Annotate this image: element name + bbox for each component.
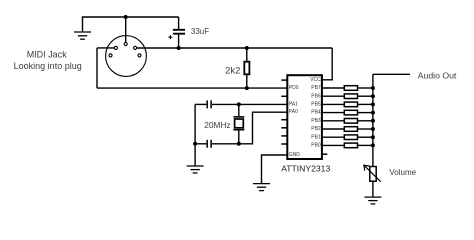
svg-text:2k2: 2k2	[225, 65, 240, 76]
connector pin 1 (lower left)	[109, 54, 112, 57]
node: bus junction PB2	[371, 127, 375, 131]
pin stub: pin 8 (PD4, n/c)	[281, 135, 287, 137]
svg-text:PA0: PA0	[289, 109, 298, 115]
node: bus junction PB4	[371, 111, 375, 115]
pin stub: pin 9 (PD5, n/c)	[281, 143, 287, 145]
IC U1 ATTINY2313 body	[287, 75, 322, 159]
ground GND3 below IC	[253, 184, 270, 191]
resistor R3 (PB6 row)	[322, 94, 373, 99]
pin label PB1	[311, 134, 321, 140]
connector pin 4 (upper left)	[114, 46, 117, 49]
crystal X1	[233, 104, 244, 143]
pin label PD0	[289, 85, 299, 91]
svg-text:Looking into plug: Looking into plug	[14, 61, 82, 71]
node: junction J3 2k2 top	[245, 46, 249, 50]
node: junction J2 cap bottom on VCC rail	[177, 46, 181, 50]
resistor R5 (PB4 row)	[322, 110, 373, 115]
resistor R2 (PB7 row)	[322, 86, 373, 91]
node: junction J4 2k2 bottom	[245, 86, 249, 90]
svg-text:PD0: PD0	[289, 85, 299, 91]
wire: left vertical from pin4	[96, 48, 98, 88]
wire: left vertical joining C2 and C3	[194, 104, 196, 143]
resistor R8 (PB1 row)	[322, 135, 373, 140]
node: bus junction PB7	[371, 86, 375, 90]
pin stub: pin 6 (PD2, n/c)	[281, 119, 287, 121]
wire: crystal bottom to PA0 pin	[239, 112, 287, 144]
wire: audio out tap	[373, 73, 410, 75]
pin label PB6	[311, 93, 321, 99]
svg-text:ATTINY2313: ATTINY2313	[281, 163, 330, 173]
svg-text:PB6: PB6	[311, 93, 321, 99]
pin label PA0	[289, 109, 298, 115]
pin stub: pin 11 (PD6, n/c)	[322, 153, 327, 155]
svg-text:PB1: PB1	[311, 134, 321, 140]
wire: MIDI pin4 left segment	[97, 47, 114, 49]
node: bus junction PB5	[371, 102, 375, 106]
wire: MIDI pin5 to VCC rail	[137, 47, 333, 49]
resistor R4 (PB5 row)	[322, 102, 373, 107]
capacitor C1 33uF electrolytic	[168, 17, 185, 48]
svg-text:Audio Out: Audio Out	[418, 70, 457, 80]
pin label PB5	[311, 102, 321, 108]
pin label PB7	[311, 85, 321, 91]
svg-text:PB7: PB7	[311, 85, 321, 91]
connector pin 5 (upper right)	[134, 46, 137, 49]
svg-text:PB5: PB5	[311, 102, 321, 108]
wire: summing bus vertical	[372, 74, 374, 166]
wire: caps left down to ground	[194, 144, 196, 166]
wire: crystal node to PA1 pin	[212, 103, 287, 105]
resistor R7 (PB2 row)	[322, 127, 373, 132]
svg-text:PB4: PB4	[311, 110, 321, 116]
capacitor C2 (crystal load, top)	[195, 100, 211, 108]
pin stub: pin 7 (PD3, n/c)	[281, 127, 287, 129]
connector pin 2 (top center)	[124, 42, 127, 45]
potentiometer RV1 volume	[364, 165, 381, 196]
capacitor C3 (crystal load, bottom)	[195, 140, 239, 148]
node: bus junction PB3	[371, 119, 375, 123]
svg-text:PA1: PA1	[289, 101, 298, 107]
ground GND1 top-left	[74, 32, 91, 39]
wire: MIDI pin2 up to top rail	[125, 17, 127, 43]
resistor R1 2k2	[244, 48, 249, 88]
pin label GND	[289, 152, 301, 158]
node: bus junction PB1	[371, 135, 375, 139]
node: junction J7 crystal bottom	[237, 142, 241, 146]
svg-text:PB2: PB2	[311, 126, 321, 132]
wire: GND pin to ground	[262, 155, 288, 184]
pin stub: pin 3 (PD1, n/c)	[281, 95, 287, 97]
wire: bottom rail to PD0	[97, 87, 287, 89]
pin stub: pin 1 (RESET, n/c)	[281, 79, 287, 81]
svg-text:33uF: 33uF	[191, 27, 209, 36]
node: junction J1 on top rail	[124, 15, 128, 19]
resistor R6 (PB3 row)	[322, 119, 373, 124]
svg-text:Volume: Volume	[389, 168, 416, 177]
svg-text:GND: GND	[289, 152, 301, 158]
pin label PB2	[311, 126, 321, 132]
svg-text:MIDI Jack: MIDI Jack	[27, 50, 68, 60]
connector pin 3 (lower right)	[138, 54, 141, 57]
ground GND2 below crystal caps	[187, 166, 204, 173]
pin label PA1	[289, 101, 298, 107]
node: junction J6 caps left	[193, 142, 197, 146]
resistor R9 (PB0 row)	[322, 143, 373, 148]
pin label PB0	[311, 143, 321, 149]
pin label PB4	[311, 110, 321, 116]
pin label VCC	[310, 77, 321, 83]
ground GND4 below volume pot	[364, 197, 381, 204]
node: bus junction PB0	[371, 143, 375, 147]
svg-text:PB3: PB3	[311, 118, 321, 124]
wire: VCC rail drop to VCC pin	[322, 48, 332, 80]
svg-text:20MHz: 20MHz	[204, 120, 230, 130]
node: junction J5 crystal top	[237, 102, 241, 106]
svg-text:VCC: VCC	[310, 77, 321, 83]
pin label PB3	[311, 118, 321, 124]
wire: top ground rail	[83, 17, 179, 32]
node: bus junction PB6	[371, 94, 375, 98]
connector J1 MIDI DIN-5 jack outline	[106, 36, 147, 77]
svg-text:PB0: PB0	[311, 143, 321, 149]
